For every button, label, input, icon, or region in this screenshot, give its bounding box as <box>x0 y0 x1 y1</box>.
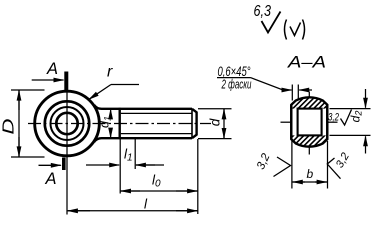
svg-text:6,3: 6,3 <box>254 3 272 20</box>
d2 extension lines <box>330 108 371 110</box>
centerline vertical (head / section trace, also l extension) <box>66 87 68 215</box>
(v) parentheses group <box>285 20 287 40</box>
section A-A outline <box>291 97 327 146</box>
svg-text:l: l <box>144 197 148 212</box>
head outer circle D <box>35 91 100 156</box>
section centerline top stub <box>308 92 310 98</box>
r leader <box>111 84 139 86</box>
svg-text:2 фаски: 2 фаски <box>221 77 252 92</box>
l1 dimension line with outside arrows <box>86 164 119 166</box>
section centerline bottom stub <box>308 148 310 155</box>
l0 extension line right (shank end extended) <box>197 139 199 214</box>
svg-text:d: d <box>208 118 223 126</box>
shank bottom outline with fillet <box>94 138 192 142</box>
head circle 2 (drum) <box>45 101 89 145</box>
svg-text:D: D <box>1 118 18 135</box>
roughness check 6,3 <box>262 12 281 33</box>
arrow A bottom <box>39 164 61 166</box>
D dimension extension lines <box>11 89 45 91</box>
svg-text:A: A <box>46 59 58 78</box>
shank end face with chamfer corners <box>192 109 197 138</box>
section hatching <box>276 71 372 153</box>
head circle 3 (hole chamfer) <box>51 107 84 140</box>
section cut mark A bottom <box>62 158 66 171</box>
b extension lines <box>291 141 293 189</box>
svg-text:3,2: 3,2 <box>328 112 339 124</box>
d1 dimension line <box>110 109 112 118</box>
d2 dimension line outside arrows <box>365 89 367 108</box>
svg-text:l1: l1 <box>124 147 133 164</box>
l0 dimension line <box>120 190 198 192</box>
roughness check near d2 <box>341 110 352 126</box>
chamfer extension lines <box>291 85 293 101</box>
svg-text:b: b <box>307 167 314 181</box>
section sides redrawn over band <box>290 105 292 139</box>
roughness 3,2 right of section <box>327 158 340 179</box>
thread start line <box>118 108 120 139</box>
end chamfer line <box>191 109 193 138</box>
chamfer note underline + leader <box>217 77 251 79</box>
thread minor diameter top <box>121 112 192 114</box>
svg-text:A: A <box>45 169 57 188</box>
svg-text:3,2: 3,2 <box>255 151 273 171</box>
section centerline right stub <box>328 121 338 123</box>
shank top outline with fillet r <box>94 105 192 109</box>
svg-text:r: r <box>107 64 113 81</box>
d dimension line <box>223 109 225 116</box>
thread minor diameter bottom <box>121 133 192 135</box>
D dimension line <box>18 90 20 157</box>
svg-text:A–A: A–A <box>287 53 326 72</box>
section hole rectangle <box>298 109 322 136</box>
section centerline stub <box>281 121 292 123</box>
chamfer dim second arrow <box>299 89 312 91</box>
roughness 3,2 left of section <box>274 157 291 177</box>
d dimension extension lines <box>198 108 232 110</box>
l1 extension line right <box>134 139 136 169</box>
arrow A top <box>32 79 64 81</box>
b dimension line <box>292 181 328 183</box>
section cut mark A top <box>64 72 68 93</box>
svg-text:3,2: 3,2 <box>334 151 352 170</box>
l1 extension line left (thread start extended) <box>119 139 121 194</box>
svg-text:l0: l0 <box>152 173 161 190</box>
l dimension line <box>67 210 198 212</box>
head hole circle <box>56 113 77 134</box>
centerline horizontal (main view axis) <box>28 123 211 125</box>
